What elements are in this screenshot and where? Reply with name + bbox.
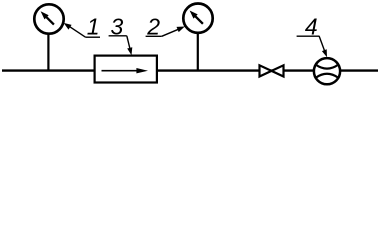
svg-text:2: 2 <box>146 13 160 39</box>
svg-text:1: 1 <box>87 13 100 39</box>
